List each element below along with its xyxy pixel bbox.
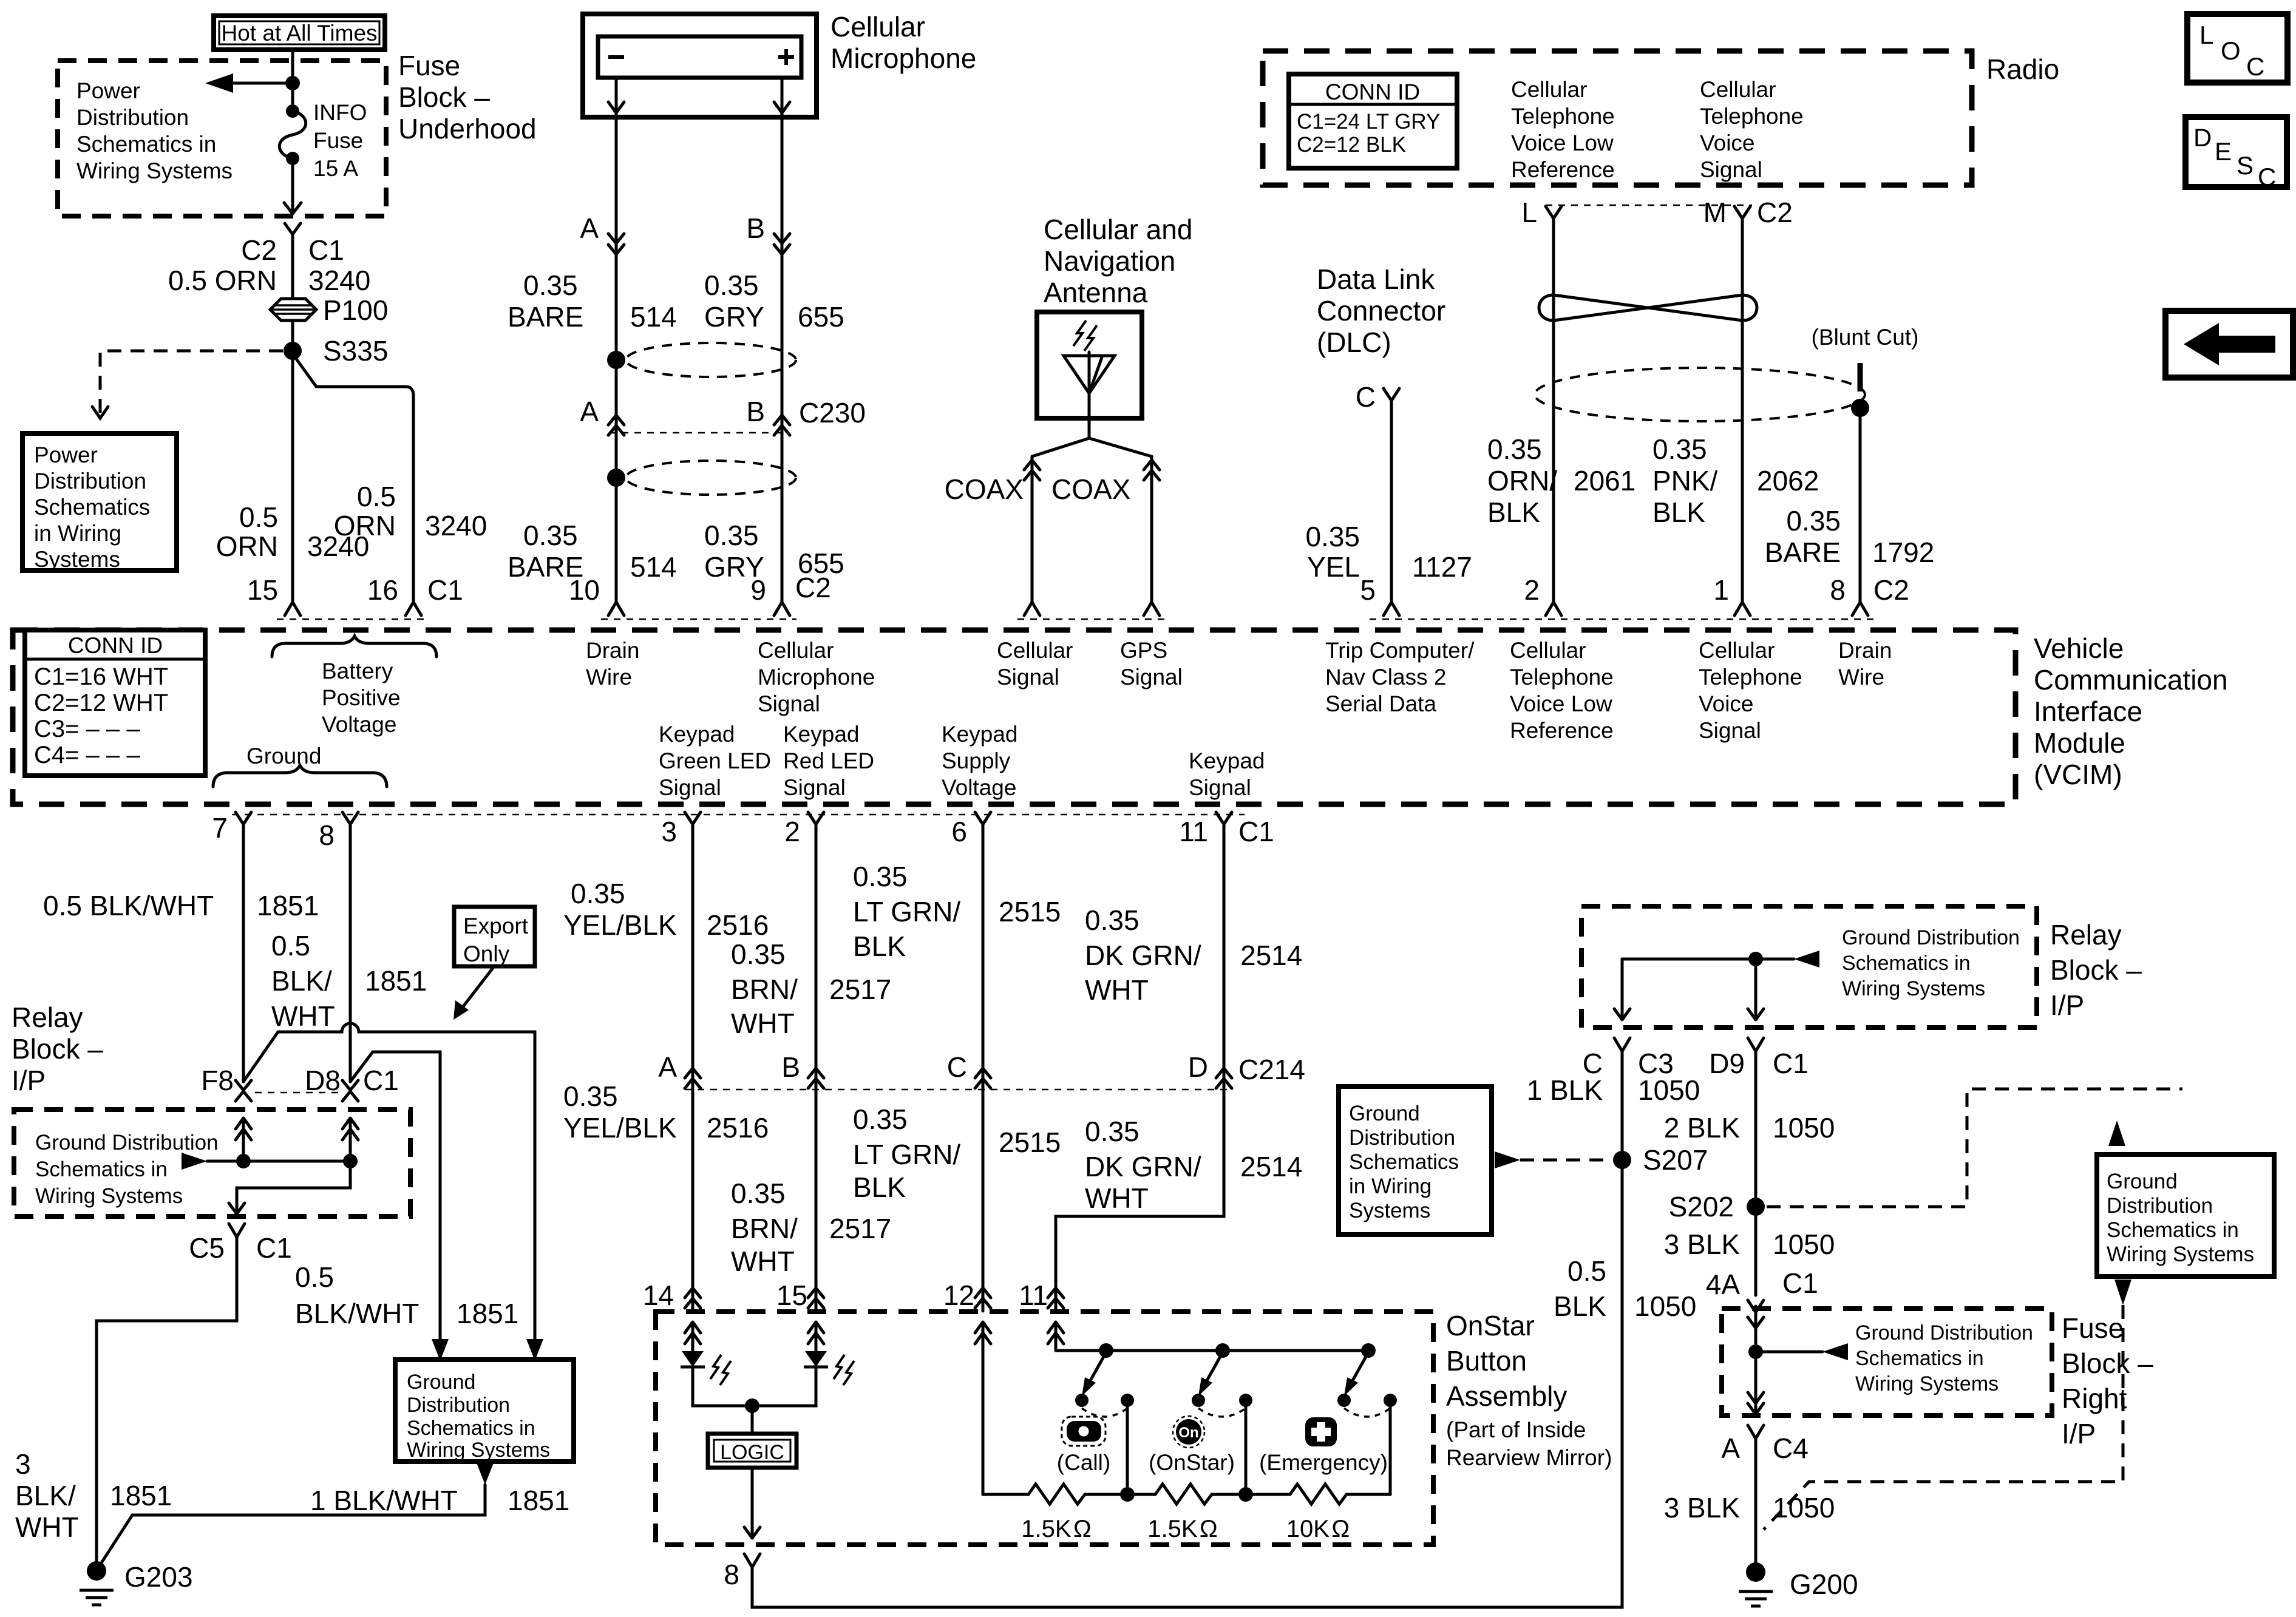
label Keypad Supply Voltage [942, 722, 1018, 800]
svg-text:C1: C1 [427, 574, 463, 606]
label 0.35 ORN/BLK 2061 [1487, 433, 1635, 528]
svg-text:Voltage: Voltage [322, 712, 396, 737]
svg-text:I/P: I/P [2062, 1418, 2096, 1449]
svg-text:15: 15 [247, 574, 278, 606]
svg-text:WHT: WHT [15, 1511, 79, 1543]
label Fuse Block - Underhood [398, 50, 537, 144]
C214 male chevrons A [685, 1068, 701, 1088]
svg-text:7: 7 [212, 812, 228, 844]
wire pin 2 keypad red [815, 824, 818, 1311]
svg-text:Schematics: Schematics [34, 495, 150, 520]
dashed box Fuse Block Right IP [1722, 1309, 2052, 1415]
svg-text:Ground Distribution: Ground Distribution [1842, 926, 2020, 949]
svg-text:Keypad: Keypad [783, 722, 860, 747]
svg-text:C: C [2258, 163, 2276, 191]
connector C3 female [1614, 1038, 1630, 1051]
svg-text:Ground: Ground [246, 744, 321, 768]
svg-text:C1=24 LT GRY: C1=24 LT GRY [1297, 110, 1440, 134]
cellular microphone circuit [508, 11, 976, 602]
LED green [681, 1351, 731, 1385]
arrow into ground distribution right [526, 1339, 543, 1361]
drain splice dot lower [607, 469, 625, 487]
svg-text:Relay: Relay [2050, 919, 2122, 951]
label C2 / C1 [241, 234, 344, 266]
svg-text:BLK: BLK [853, 1171, 906, 1203]
cellular and navigation antenna circuit [945, 214, 1193, 602]
box Ground Distribution Schematics top right [2097, 1154, 2274, 1276]
label Keypad Signal [1189, 748, 1265, 800]
svg-text:Ground Distribution: Ground Distribution [35, 1131, 219, 1154]
svg-text:BLK/: BLK/ [271, 965, 332, 997]
svg-text:WHT: WHT [731, 1246, 795, 1277]
C214 connector dashed line [685, 1089, 1232, 1091]
svg-text:L: L [1521, 197, 1537, 228]
connector D9 female [1748, 1038, 1764, 1051]
svg-text:Fuse: Fuse [2062, 1312, 2124, 1344]
drain splice dot radio [1851, 399, 1869, 417]
wire pin 7 to F8 [242, 824, 245, 1082]
label 0.35 YEL/BLK 2516 lower [563, 1080, 769, 1144]
data link connector circuit [1305, 263, 1472, 602]
dashed path S202 to ground distribution top right [1767, 1089, 2182, 1207]
svg-text:0.5: 0.5 [295, 1261, 334, 1293]
svg-text:COAX: COAX [1051, 473, 1130, 505]
junction dot LED bus [745, 1398, 759, 1413]
male chevrons wire A [608, 234, 624, 254]
label 0.35 BRN/WHT 2517 upper [731, 938, 891, 1039]
svg-text:8: 8 [319, 819, 335, 851]
svg-text:2061: 2061 [1574, 465, 1635, 497]
svg-text:Interface: Interface [2034, 696, 2142, 727]
wire relay to D9 with arrow [1748, 959, 1764, 1020]
svg-text:Schematics in: Schematics in [407, 1417, 535, 1440]
svg-text:0.35: 0.35 [731, 1178, 786, 1209]
antenna symbol [1064, 320, 1115, 401]
label 0.5 BLK/WHT 1851 to G203 [295, 1261, 518, 1329]
svg-text:10: 10 [569, 574, 600, 606]
node junction above fuse [285, 76, 300, 90]
label Keypad Green LED Signal [659, 722, 771, 800]
svg-text:1050: 1050 [1773, 1229, 1835, 1260]
svg-text:BLK: BLK [1652, 497, 1705, 528]
keypad male chevrons 14 [685, 1288, 701, 1308]
svg-text:Battery: Battery [322, 659, 393, 683]
svg-text:Wiring Systems: Wiring Systems [1855, 1372, 1999, 1395]
connector A female [1748, 1425, 1764, 1439]
svg-text:(Part of Inside: (Part of Inside [1446, 1417, 1586, 1442]
svg-text:Schematics in: Schematics in [76, 132, 216, 157]
svg-text:Drain: Drain [586, 638, 639, 663]
svg-text:Signal: Signal [1189, 775, 1251, 800]
female connector pin 10 [608, 602, 624, 615]
svg-text:DK GRN/: DK GRN/ [1085, 940, 1201, 971]
svg-text:Cellular and: Cellular and [1044, 214, 1192, 245]
svg-text:C2: C2 [1757, 197, 1793, 228]
connector dashed line radio pins [1546, 205, 1752, 206]
keypad male chevrons 11 [1048, 1288, 1064, 1308]
svg-text:0.35: 0.35 [853, 1103, 908, 1135]
svg-text:C230: C230 [799, 397, 866, 429]
svg-text:Rearview Mirror): Rearview Mirror) [1446, 1445, 1612, 1470]
svg-text:0.5 BLK/WHT: 0.5 BLK/WHT [43, 890, 214, 921]
fuse block right IP and ground G200 circuit (bottom right) [1339, 906, 2274, 1606]
label 0.5 ORN 3240 [168, 265, 370, 296]
wire antenna stem [1088, 393, 1091, 438]
svg-text:Antenna: Antenna [1044, 277, 1148, 308]
VCIM dashed module box [13, 630, 2016, 804]
svg-text:Wire: Wire [1838, 665, 1884, 690]
svg-text:Keypad: Keypad [659, 722, 735, 747]
svg-text:Distribution: Distribution [2107, 1194, 2213, 1218]
svg-text:WHT: WHT [731, 1008, 795, 1039]
connector C1 female [285, 223, 301, 234]
svg-text:Radio: Radio [1986, 53, 2059, 85]
svg-text:C2: C2 [1873, 574, 1909, 606]
label 3 BLK 1050 lower [1664, 1492, 1835, 1524]
bottom pin chevron 3 [685, 812, 701, 824]
label Keypad Red LED Signal [783, 722, 874, 800]
CONN ID table VCIM [25, 630, 205, 776]
bottom pin chevron 7 [236, 812, 251, 824]
junction dot resistor call [1120, 1487, 1135, 1502]
bottom pin chevron 6 [975, 812, 991, 824]
wire arrow to Power Distribution reference [205, 73, 293, 93]
svg-text:1 BLK: 1 BLK [1527, 1074, 1603, 1106]
label 3 BLK 1050 upper [1664, 1229, 1835, 1260]
svg-text:Keypad: Keypad [942, 722, 1018, 747]
label 0.35 BARE 514 lower [508, 520, 677, 583]
switch call [1075, 1352, 1134, 1417]
svg-text:0.35: 0.35 [704, 269, 759, 301]
svg-text:Distribution: Distribution [1349, 1126, 1455, 1150]
arrow down at relay box bottom [229, 1203, 245, 1214]
svg-text:Telephone: Telephone [1510, 665, 1614, 690]
label 0.35 BARE 514 upper [508, 269, 677, 333]
coax wire cellular [1031, 456, 1034, 602]
svg-text:PNK/: PNK/ [1652, 465, 1718, 497]
internal arrow pin 11 [1048, 1322, 1064, 1351]
svg-text:S335: S335 [323, 335, 388, 367]
svg-text:D9: D9 [1709, 1048, 1745, 1079]
svg-text:1127: 1127 [1412, 551, 1472, 583]
svg-text:Wire: Wire [586, 665, 632, 690]
svg-text:Button: Button [1446, 1345, 1527, 1377]
label 2 BLK 1050 [1664, 1112, 1835, 1144]
switch onstar [1192, 1352, 1252, 1417]
svg-text:WHT: WHT [1085, 974, 1149, 1006]
svg-text:2514: 2514 [1240, 1151, 1302, 1182]
wire drain to pin 8 [1859, 408, 1862, 602]
female connector pin 2 [1546, 602, 1561, 615]
label Ground Distribution Schematics relay right [1842, 926, 2020, 1000]
ground G200 [1739, 1562, 1858, 1606]
keypad wiring columns C214 [563, 824, 1305, 1311]
wire C5 to G203 [97, 1237, 237, 1567]
svg-text:514: 514 [630, 301, 677, 333]
label 0.35 LT GRN/BLK 2515 upper [853, 861, 1061, 962]
wire bus to LOGIC [751, 1406, 754, 1434]
svg-text:1851: 1851 [257, 890, 319, 921]
svg-text:Module: Module [2034, 727, 2125, 759]
svg-text:Telephone: Telephone [1699, 665, 1802, 690]
svg-text:Underhood: Underhood [398, 113, 537, 144]
svg-text:2515: 2515 [999, 1127, 1061, 1158]
fuse block underhood circuit (top left) [22, 16, 537, 602]
svg-text:Wiring Systems: Wiring Systems [35, 1184, 183, 1208]
svg-text:Block –: Block – [2062, 1347, 2153, 1379]
svg-text:C3= – – –: C3= – – – [34, 716, 140, 742]
label C5 C1 [189, 1232, 292, 1264]
connector dashed line C2 group [601, 619, 796, 620]
box Ground Distribution Schematics bottom [395, 1360, 574, 1462]
svg-text:BLK/WHT: BLK/WHT [295, 1298, 419, 1329]
label Drain Wire left [586, 638, 639, 690]
svg-text:Distribution: Distribution [34, 469, 146, 493]
svg-text:Ground Distribution: Ground Distribution [1855, 1321, 2033, 1344]
svg-text:BARE: BARE [508, 301, 583, 333]
connector dashed line coax group [1017, 619, 1166, 620]
relay block and ground G203 circuit (bottom left) [12, 824, 574, 1605]
label Cellular and Navigation Antenna [1044, 214, 1192, 308]
dashed wire S207 reference [1520, 1159, 1611, 1162]
grommet P100 [270, 294, 388, 326]
svg-text:655: 655 [798, 301, 844, 333]
label Cellular Telephone Voice Signal [1700, 77, 1804, 182]
label Power Distribution Schematics in Wiring Systems [76, 78, 233, 183]
svg-text:Schematics in: Schematics in [2107, 1218, 2239, 1242]
male chevrons coax cellular [1024, 460, 1040, 480]
dashed box Relay Block IP right [1581, 906, 2037, 1028]
svg-text:Signal: Signal [783, 775, 846, 800]
wire button supply bus [1056, 1349, 1368, 1352]
OnStar pin labels 14 15 12 11 [643, 1280, 1048, 1311]
female connector coax cellular [1024, 602, 1040, 615]
svg-text:Communication: Communication [2034, 664, 2228, 696]
svg-text:Wiring Systems: Wiring Systems [407, 1439, 550, 1462]
svg-text:LT GRN/: LT GRN/ [853, 1139, 960, 1170]
wire from Hot at All Times to fuse [291, 50, 294, 111]
junction dot relay [1748, 952, 1763, 966]
svg-text:10K Ω: 10K Ω [1286, 1516, 1350, 1542]
svg-text:C1=16 WHT: C1=16 WHT [34, 663, 168, 690]
svg-text:C4= – – –: C4= – – – [34, 742, 140, 768]
drain splice dot upper [607, 351, 625, 369]
connector dashed line right C2 group [1370, 619, 1876, 620]
label Drain Wire right [1838, 638, 1892, 690]
OnStar button assembly [656, 1053, 1622, 1607]
svg-text:D: D [1188, 1051, 1208, 1083]
shield ellipse radio pair [1535, 368, 1865, 421]
female connector pin 5 [1384, 602, 1399, 615]
ground G203 [80, 1561, 193, 1605]
svg-text:6: 6 [951, 816, 967, 847]
wire DLC class2 serial [1390, 401, 1393, 602]
pass-through connector F8 [236, 1080, 251, 1101]
svg-text:ORN: ORN [216, 531, 278, 562]
svg-text:5: 5 [1360, 574, 1376, 606]
connector M female [1734, 206, 1750, 219]
page navigation boxes LOC DESC arrow [2165, 14, 2293, 378]
label Trip Computer Nav Class 2 Serial Data [1325, 638, 1475, 716]
wire into fuse block with arrow [1748, 1306, 1764, 1390]
icon onstar button [1173, 1416, 1204, 1448]
svg-text:Navigation: Navigation [1044, 245, 1175, 277]
svg-text:A: A [1721, 1432, 1740, 1464]
arrow out of top right box [2114, 1280, 2131, 1305]
arrow into ground distribution left [432, 1339, 449, 1361]
arrow out of ground distribution box [477, 1463, 494, 1485]
svg-text:in Wiring: in Wiring [34, 521, 121, 546]
label 0.5 BLK/WHT 1851 pin7 [43, 890, 319, 921]
svg-text:Ground: Ground [2107, 1170, 2178, 1193]
svg-text:2517: 2517 [829, 974, 891, 1005]
svg-text:Connector: Connector [1317, 295, 1445, 327]
svg-text:Right: Right [2062, 1383, 2127, 1414]
svg-text:11: 11 [1019, 1280, 1048, 1311]
wire D9 down [1754, 1051, 1758, 1295]
female connector pin 1 [1734, 602, 1750, 615]
svg-text:C1: C1 [363, 1065, 399, 1096]
svg-text:C4: C4 [1773, 1432, 1809, 1464]
svg-text:15 A: 15 A [313, 156, 358, 181]
svg-text:C: C [2246, 52, 2264, 81]
dashed box Fuse Block Underhood detail [58, 61, 386, 216]
svg-text:Relay: Relay [12, 1002, 83, 1033]
blunt cut stub [1858, 363, 1863, 392]
label 0.35 DK GRN/WHT 2514 lower [1085, 1116, 1302, 1214]
label 0.35 GRY 655 upper [704, 269, 844, 333]
svg-text:CONN ID: CONN ID [1325, 80, 1420, 104]
wire pin 11 keypad signal [1056, 824, 1224, 1311]
antenna box [1037, 312, 1142, 418]
svg-text:I/P: I/P [12, 1065, 46, 1096]
wire onstar contact down [1245, 1400, 1248, 1494]
svg-text:GPS: GPS [1120, 638, 1167, 663]
wire emergency contact down [1389, 1400, 1392, 1494]
svg-text:Cellular: Cellular [830, 11, 925, 42]
svg-text:1050: 1050 [1773, 1492, 1835, 1524]
svg-text:1050: 1050 [1634, 1290, 1696, 1322]
svg-text:Keypad: Keypad [1189, 748, 1265, 773]
box Power Distribution Schematics in Wiring Systems [22, 433, 177, 572]
svg-text:1792: 1792 [1872, 537, 1934, 568]
VCIM bottom connector dashed line [232, 814, 1245, 816]
svg-text:C5: C5 [189, 1232, 225, 1264]
svg-text:YEL: YEL [1307, 551, 1360, 583]
label 0.5 ORN 3240 left branch [216, 501, 370, 562]
junction dot call [1099, 1343, 1113, 1358]
arrow up to D8 [342, 1118, 358, 1161]
svg-text:Export: Export [463, 914, 529, 938]
svg-text:Cellular: Cellular [758, 638, 834, 663]
connector dashed line C1 group [277, 619, 429, 620]
wire 1 BLK/WHT to G203 [98, 1485, 485, 1568]
svg-text:Drain: Drain [1838, 638, 1892, 663]
svg-text:Voice Low: Voice Low [1511, 131, 1614, 155]
svg-text:D8: D8 [305, 1065, 341, 1096]
svg-text:Positive: Positive [322, 685, 401, 710]
svg-text:Vehicle: Vehicle [2034, 632, 2124, 664]
label GPS Signal [1120, 638, 1183, 690]
svg-text:Data Link: Data Link [1317, 263, 1435, 295]
label 0.35 PNK/BLK 2062 [1652, 433, 1819, 528]
reference arrow relay left [182, 1153, 350, 1170]
svg-text:C1: C1 [308, 234, 344, 266]
svg-text:3: 3 [15, 1448, 31, 1480]
svg-text:P100: P100 [323, 294, 388, 326]
label 0.35 YEL/BLK 2516 upper [563, 878, 769, 941]
svg-text:2: 2 [784, 816, 800, 847]
internal arrow pin 12 [975, 1322, 991, 1494]
svg-text:Only: Only [463, 941, 510, 966]
label F8 D8 C1 [201, 1065, 399, 1096]
plus terminal [778, 49, 794, 65]
svg-text:C1: C1 [256, 1232, 292, 1264]
svg-text:Voice: Voice [1699, 691, 1754, 716]
svg-text:(Call): (Call) [1057, 1450, 1110, 1475]
label A C4 [1721, 1432, 1809, 1464]
svg-text:Fuse: Fuse [398, 50, 460, 81]
svg-text:Cellular: Cellular [1700, 77, 1776, 102]
LED red [804, 1351, 854, 1385]
svg-text:S207: S207 [1643, 1144, 1708, 1176]
svg-text:C2=12 BLK: C2=12 BLK [1297, 133, 1406, 157]
svg-text:(VCIM): (VCIM) [2034, 759, 2122, 790]
svg-text:WHT: WHT [271, 1000, 335, 1032]
svg-text:Microphone: Microphone [758, 665, 875, 690]
svg-text:C2=12 WHT: C2=12 WHT [34, 690, 168, 716]
svg-text:A: A [658, 1051, 677, 1083]
junction dot F8 ground [236, 1154, 251, 1168]
wire pin 6 keypad supply [982, 824, 985, 1311]
label Cellular Telephone Voice Low Reference VCIM [1510, 638, 1614, 743]
LOGIC box [708, 1434, 796, 1468]
svg-text:Schematics in: Schematics in [1842, 952, 1971, 975]
svg-text:1: 1 [1713, 574, 1729, 606]
svg-text:Systems: Systems [34, 547, 120, 572]
svg-text:BLK: BLK [1554, 1290, 1606, 1322]
label Vehicle Communication Interface Module (VCIM) [2034, 632, 2228, 790]
male chevrons wire B [774, 234, 790, 254]
svg-text:Block –: Block – [12, 1033, 103, 1065]
svg-text:(Blunt Cut): (Blunt Cut) [1812, 325, 1919, 350]
svg-text:Ground: Ground [1349, 1102, 1420, 1125]
svg-text:O: O [2221, 36, 2241, 65]
icon emergency button [1305, 1417, 1337, 1446]
svg-text:514: 514 [630, 551, 677, 583]
internal arrow pin 14 [685, 1322, 701, 1351]
vehicle communication interface module VCIM [13, 572, 2228, 851]
svg-text:S: S [2237, 151, 2254, 180]
wire L voice low reference [1552, 219, 1555, 602]
microphone element box [598, 36, 801, 78]
icon call button [1062, 1417, 1106, 1446]
VCIM bottom pin labels [212, 812, 1274, 851]
back arrow box [2165, 311, 2293, 378]
svg-text:2515: 2515 [999, 896, 1061, 927]
arrow into top right box [2108, 1120, 2125, 1146]
label Cellular Telephone Voice Signal VCIM [1699, 638, 1802, 743]
svg-text:Signal: Signal [1700, 157, 1762, 182]
svg-text:BRN/: BRN/ [731, 1213, 798, 1244]
svg-text:(DLC): (DLC) [1317, 327, 1391, 358]
cellular microphone box [583, 14, 817, 117]
wire P100 to S335 [291, 320, 294, 351]
keypad male chevrons 12 [975, 1288, 991, 1308]
svg-text:0.35: 0.35 [1487, 433, 1542, 465]
dashed box OnStar Button Assembly [656, 1312, 1433, 1545]
label Relay Block IP left [12, 1002, 103, 1096]
